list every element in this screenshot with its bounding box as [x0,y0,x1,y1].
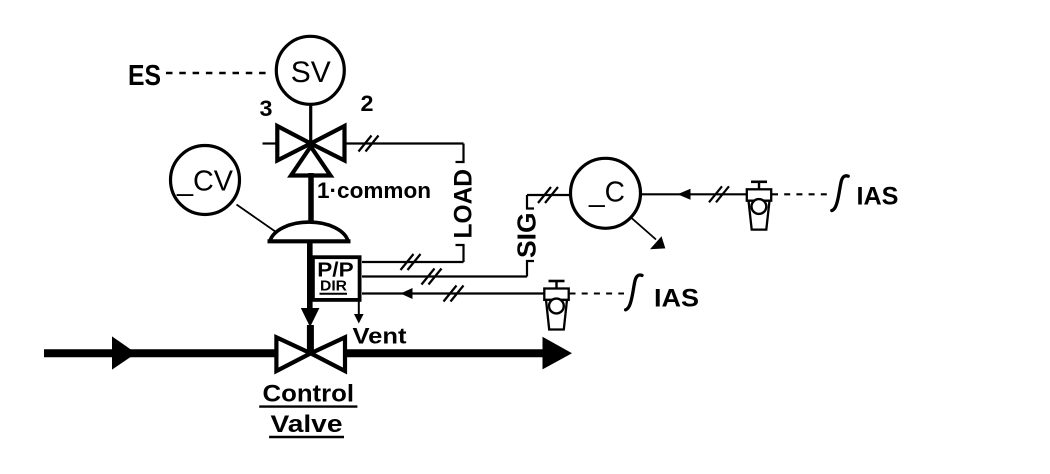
IAS break squiggle 1 [832,176,848,211]
wire: LOAD bracket bottom [456,245,464,262]
wire: regulator to C [641,193,748,195]
svg-text:DIR: DIR [320,278,347,295]
wire: SV to valve [309,104,312,146]
pneumatic slash marks [538,187,558,203]
pneumatic slash marks [401,254,421,270]
wire: dashed to IAS 1 [772,193,829,195]
arrowhead down to control valve [301,308,320,327]
actuator diaphragm dome [270,222,348,241]
pipe flow arrowhead end [543,337,573,370]
wire: dome to arrow stem [307,241,313,310]
wire: dashed to IAS 2 [570,292,625,294]
svg-text:1·common: 1·common [317,178,431,203]
pneumatic slash marks [422,269,442,285]
wire: dashed ES to SV [166,72,272,74]
wire: stub port 3 [263,142,278,144]
wire: port 2 to LOAD [345,142,464,144]
vent arrow [358,301,360,316]
3-way solenoid valve body [277,126,344,176]
process pipe left [44,349,277,357]
svg-text:SV: SV [291,56,331,89]
transducer box P/P [313,257,360,300]
instrument bubble SV [276,36,344,104]
leader line CV to actuator [237,205,277,233]
pressure regulator 1 [747,182,771,230]
instrument bubble C [571,158,641,228]
wire: stem into control valve [307,325,314,352]
arrowhead into P/P [401,288,413,299]
wire: P/P to SIG [362,275,527,277]
svg-text:_C: _C [588,176,625,208]
pneumatic slash marks [444,286,464,302]
arrowhead into C [678,189,691,200]
svg-text:3: 3 [260,96,273,121]
svg-text:IAS: IAS [857,183,899,211]
pipe flow arrowhead mid [112,336,136,369]
pneumatic slash marks [709,186,729,202]
svg-text:Vent: Vent [353,324,408,349]
process pipe right [345,349,546,357]
control valve body [276,337,345,371]
IAS break squiggle 2 [626,275,642,310]
wire: IAS supply to P/P [362,292,544,294]
pneumatic slash marks [359,136,379,152]
svg-text:Control: Control [263,380,355,407]
wire: SIG bracket bottom [527,261,534,277]
wire: valve to dome stem [308,173,314,221]
wire: SIG to C bubble [527,194,571,196]
svg-text:2: 2 [361,91,374,116]
svg-text:ES: ES [128,60,161,92]
actuator base line [268,239,351,243]
svg-text:_CV: _CV [176,166,234,198]
diagonal output arrow from C [632,218,657,240]
svg-text:LOAD: LOAD [450,169,478,239]
wire: SIG bracket top [527,195,534,209]
svg-text:IAS: IAS [654,285,699,313]
instrument bubble CV [171,146,240,215]
svg-text:SIG: SIG [512,213,542,259]
wire: LOAD to P/P box [362,261,464,263]
svg-text:Valve: Valve [271,411,343,438]
wire: LOAD bracket top [456,144,464,163]
pressure regulator 2 [544,281,568,330]
